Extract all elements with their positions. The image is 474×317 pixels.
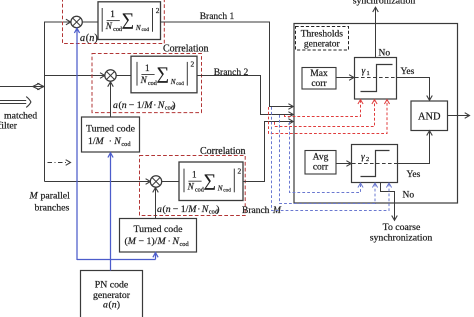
double arrowhead on input line (right) — [37, 83, 44, 90]
svg-text:Correlation: Correlation — [163, 44, 209, 55]
multiplier M2 — [105, 70, 116, 81]
multiplier M1 (circle with X) — [71, 16, 82, 27]
red dashed tap: branch 1 to gamma1 — [269, 100, 388, 133]
svg-text:generator: generator — [304, 40, 341, 50]
svg-text:− 1)/: − 1)/ — [139, 236, 158, 247]
correlator box 2 — [131, 56, 197, 93]
wire: gamma1 Yes to AND — [397, 78, 430, 100]
svg-text:corr: corr — [311, 79, 327, 89]
svg-text:): ) — [172, 100, 175, 111]
wire: AND output — [448, 115, 469, 117]
svg-text:Max: Max — [310, 69, 328, 79]
wire: gamma2 No to coarse synchronization — [381, 183, 395, 220]
svg-text:·: · — [197, 204, 200, 215]
blue wire: up to multiplier 1 — [76, 29, 78, 261]
blue dashed tap: branch 1 to gamma2 — [272, 107, 390, 211]
blue wire: junction horizontal — [77, 259, 156, 261]
svg-text:M: M — [143, 100, 153, 111]
svg-text:− 1/: − 1/ — [173, 204, 189, 215]
svg-text:cod: cod — [121, 141, 131, 148]
svg-text:): ) — [216, 204, 219, 215]
svg-text:M: M — [127, 236, 137, 247]
AND box — [411, 101, 448, 131]
red arrowhead 1 into gamma1 — [358, 100, 363, 104]
big decision box — [294, 24, 458, 204]
label Turned code (M-1)/M N_cod — [125, 224, 190, 248]
svg-text:N: N — [201, 204, 209, 215]
wire: bus to multiplier 2 — [44, 75, 104, 77]
thresholds generator dashed box — [296, 27, 349, 51]
wire: gamma2 Yes to AND — [398, 132, 430, 164]
svg-text:Branch: Branch — [242, 206, 270, 216]
block arrow: matched filter input — [0, 97, 31, 108]
svg-text:synchronization: synchronization — [353, 0, 416, 6]
blue dashed tap: branch M to gamma2 — [290, 122, 361, 193]
blue wire: up to turned code 2 — [155, 253, 157, 260]
label M parallel branches — [29, 191, 71, 214]
svg-text:Correlation: Correlation — [200, 146, 246, 157]
blue arrowhead 3 into gamma2 — [386, 183, 391, 187]
Avg corr box — [305, 151, 336, 175]
PN code generator box — [81, 271, 143, 317]
svg-text:Branch 2: Branch 2 — [214, 68, 249, 78]
wire: branch 2 output — [197, 76, 292, 115]
wire: bus to multiplier 1 — [44, 21, 70, 23]
red dashed tap: branch 2 to gamma1 — [285, 100, 361, 116]
svg-text:M: M — [157, 236, 167, 247]
svg-text:N: N — [113, 136, 121, 147]
svg-text:Yes: Yes — [401, 67, 415, 77]
red arrowhead 3 into gamma1 — [384, 100, 389, 104]
svg-text:N: N — [157, 100, 165, 111]
gamma1 dashed mid line — [355, 77, 396, 79]
svg-text:·: · — [109, 136, 112, 147]
svg-text:M: M — [187, 204, 197, 215]
blue wire: PN generator up to turned code 1 — [110, 153, 112, 271]
formula 2 — [137, 60, 195, 87]
svg-text:n: n — [122, 100, 127, 111]
blue arrowhead into multiplier 1 — [74, 28, 79, 33]
svg-text:a: a — [103, 300, 108, 311]
svg-text:corr: corr — [313, 162, 329, 172]
dash-dot arrow (more branches) — [48, 162, 67, 164]
svg-text:N: N — [172, 236, 180, 247]
red dashed box: correlation 3 — [140, 156, 246, 216]
svg-text:No: No — [379, 49, 391, 59]
wire: turned code 2 to multiplier 3 — [155, 188, 157, 218]
wire: bus to multiplier 3 — [45, 181, 150, 183]
svg-text:synchronization: synchronization — [370, 232, 433, 243]
gamma2 step curve — [361, 151, 390, 177]
label a(n - 1/M . N_cod) (3) — [157, 204, 219, 216]
wire: Avg corr to gamma2 — [336, 163, 350, 165]
blue arrowhead into turned code 2 — [153, 253, 158, 258]
double arrowhead on input line (left) — [33, 83, 40, 90]
svg-text:AND: AND — [418, 112, 441, 123]
red dashed box: correlation 2 — [92, 54, 202, 113]
svg-text:cod: cod — [180, 241, 190, 248]
svg-text:γ: γ — [362, 67, 366, 77]
svg-text:a: a — [80, 33, 85, 44]
svg-text:To coarse: To coarse — [383, 222, 421, 233]
wire: turned code 1 to multiplier 2 — [110, 83, 112, 117]
multiplier M3 — [150, 176, 161, 187]
svg-text:Turned code: Turned code — [86, 124, 136, 135]
svg-text:filter: filter — [0, 121, 18, 132]
svg-text:n: n — [166, 204, 171, 215]
svg-text:parallel: parallel — [41, 191, 71, 202]
label PN code generator a(n) — [93, 280, 131, 311]
blue arrowhead 2 into gamma2 — [372, 183, 377, 187]
red arrowhead 2 into gamma1 — [372, 100, 377, 104]
svg-text:): ) — [94, 33, 97, 44]
svg-text:Avg: Avg — [313, 152, 329, 162]
formula 1 — [102, 6, 160, 33]
wire: multiplier 1 to correlator 1 — [82, 21, 98, 23]
svg-text:1: 1 — [367, 70, 370, 77]
svg-text:branches: branches — [35, 203, 70, 214]
correlator box 1 — [98, 2, 161, 40]
wire: branch 1 output — [161, 22, 293, 107]
wire: Max corr to gamma1 — [336, 77, 353, 79]
gamma2 comparator box — [352, 145, 398, 183]
svg-text:No: No — [403, 190, 415, 200]
formula 3 — [184, 166, 242, 193]
turned code box 2 — [120, 219, 197, 253]
svg-text:): ) — [117, 300, 120, 311]
gamma2 dashed mid line — [352, 163, 397, 165]
wire: multiplier 3 to correlator 3 — [162, 181, 179, 183]
label Turned code 1/M N_cod — [86, 124, 136, 149]
red dashed box: correlation 1 — [63, 0, 165, 44]
gamma1 comparator box — [355, 58, 397, 100]
wire: input line from matched filter — [0, 86, 45, 88]
wire: gamma1 No up to fine synchronization — [375, 8, 377, 58]
blue arrowhead into turned code 1 — [108, 153, 113, 158]
blue dashed tap: branch 2 to gamma2 — [280, 115, 376, 204]
turned code box 1 — [82, 117, 140, 152]
svg-text:Thresholds: Thresholds — [301, 30, 344, 40]
svg-text:a: a — [113, 100, 118, 111]
svg-text:PN code: PN code — [95, 280, 129, 291]
svg-text:Yes: Yes — [407, 170, 421, 180]
svg-text:2: 2 — [366, 156, 369, 163]
svg-text:M: M — [29, 191, 39, 202]
wire: branch M output — [243, 122, 292, 182]
Max corr box — [302, 68, 336, 90]
svg-text:·: · — [168, 236, 171, 247]
svg-text:M: M — [95, 136, 105, 147]
svg-text:Turned code: Turned code — [134, 224, 184, 235]
svg-text:− 1/: − 1/ — [129, 100, 145, 111]
correlator box 3 — [179, 162, 243, 201]
blue arrowhead 1 into gamma2 — [358, 183, 363, 187]
svg-text:a: a — [157, 204, 162, 215]
wire: vertical bus — [44, 22, 46, 182]
svg-text:γ: γ — [361, 153, 365, 163]
label a(n - 1/M . N_cod) (2) — [113, 100, 175, 112]
svg-text:·: · — [153, 100, 156, 111]
svg-text:Branch 1: Branch 1 — [200, 12, 235, 22]
red dashed tap: branch M to gamma1 — [275, 100, 375, 126]
wire: multiplier 2 to correlator 2 — [116, 75, 131, 77]
gamma1 step curve — [361, 65, 393, 92]
